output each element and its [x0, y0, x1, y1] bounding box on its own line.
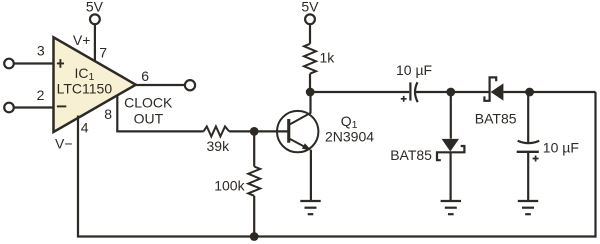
- resistor 1k: [304, 44, 316, 74]
- wire 100k to bottom bus: [253, 196, 255, 237]
- svg-text:100k: 100k: [214, 178, 245, 194]
- wire collector node to capacitor: [310, 91, 409, 93]
- svg-text:LTC1150: LTC1150: [57, 80, 113, 96]
- svg-text:CLOCK: CLOCK: [124, 94, 173, 110]
- capacitor 10uF shunt: [517, 141, 540, 152]
- wire output cap node down: [527, 92, 529, 143]
- junction diode node: [446, 88, 455, 97]
- wire 39k to base: [229, 130, 287, 132]
- terminal 5V mid: [305, 14, 315, 24]
- op-amp inverting - marker: [57, 105, 66, 107]
- svg-text:4: 4: [81, 120, 89, 136]
- svg-text:10 µF: 10 µF: [396, 62, 432, 78]
- diode BAT85 shunt: [437, 139, 464, 160]
- junction output cap node: [525, 88, 534, 97]
- svg-text:BAT85: BAT85: [390, 147, 432, 163]
- svg-text:5V: 5V: [301, 0, 319, 15]
- polarity + (series cap): [401, 96, 407, 102]
- svg-text:8: 8: [104, 106, 112, 122]
- terminal 5V left: [90, 14, 100, 24]
- svg-text:2N3904: 2N3904: [325, 129, 374, 145]
- wire 1k to collector node: [309, 74, 311, 92]
- svg-text:6: 6: [141, 68, 149, 84]
- svg-text:2: 2: [37, 87, 45, 103]
- wire shunt cap to ground: [527, 152, 529, 201]
- polarity + (shunt cap): [533, 156, 539, 162]
- wire pin4 V- down: [77, 116, 79, 237]
- wire emitter: [310, 150, 312, 201]
- ground (shunt cap): [518, 201, 538, 214]
- wire bottom bus: [77, 235, 596, 237]
- resistor 39k: [204, 126, 230, 136]
- wire input pin3: [14, 62, 53, 64]
- wire capacitor to diode: [415, 91, 489, 93]
- junction collector node: [306, 88, 315, 97]
- terminal input pin3: [4, 59, 14, 69]
- wire pin7 V+: [94, 25, 96, 62]
- terminal input pin2: [4, 103, 14, 113]
- transistor Q1 2N3904: [277, 111, 318, 152]
- terminal clock out: [185, 80, 195, 90]
- diode BAT85 series: [484, 77, 503, 100]
- wire input pin2: [14, 106, 53, 108]
- wire base node down: [253, 131, 255, 166]
- svg-text:3: 3: [37, 42, 45, 58]
- ground (shunt diode): [441, 201, 461, 214]
- wire output pin6: [136, 84, 185, 86]
- capacitor 10uF series: [410, 82, 417, 102]
- wire shunt diode to ground: [450, 152, 452, 201]
- wire diode node down: [450, 92, 452, 139]
- svg-text:5V: 5V: [86, 0, 104, 15]
- wire right edge: [594, 92, 596, 238]
- svg-text:1k: 1k: [320, 49, 336, 65]
- svg-text:39k: 39k: [207, 138, 231, 154]
- svg-text:BAT85: BAT85: [475, 111, 517, 127]
- resistor 100k: [248, 167, 260, 196]
- ground (emitter): [300, 201, 320, 214]
- op-amp noninverting + marker: [57, 59, 64, 68]
- junction base node: [250, 127, 259, 136]
- op-amp IC1 LTC1150: [54, 37, 136, 132]
- svg-text:10 µF: 10 µF: [543, 139, 579, 155]
- svg-text:V−: V−: [55, 136, 73, 152]
- svg-text:OUT: OUT: [134, 111, 164, 127]
- wire pin8 clock out: [117, 96, 203, 132]
- wire series diode to right edge: [503, 91, 595, 93]
- junction bottom bus: [250, 232, 259, 241]
- svg-text:V+: V+: [73, 32, 91, 48]
- wire collector: [309, 92, 311, 114]
- svg-text:7: 7: [99, 45, 107, 61]
- wire 5V to 1k: [309, 25, 311, 44]
